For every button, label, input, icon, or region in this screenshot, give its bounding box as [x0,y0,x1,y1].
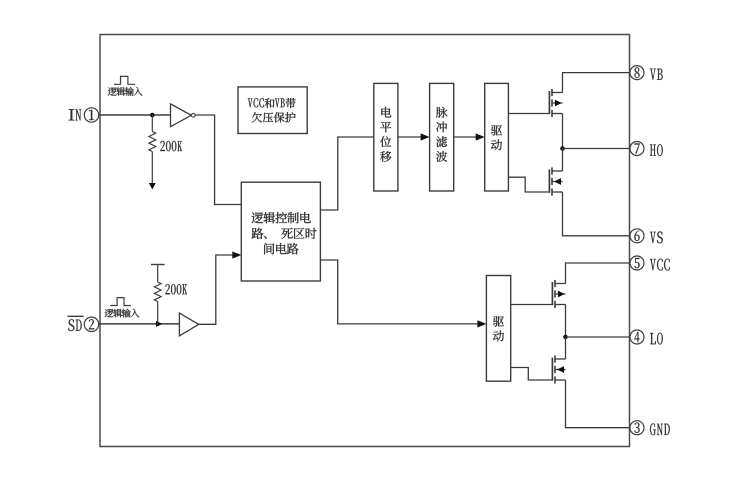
node: SD / R2 junction (arrow) [156,321,163,327]
inverter U1 (IN buffer with bubble) [171,104,196,127]
label VCC [650,259,670,271]
wire: driver1 to Q1 gate [508,113,549,115]
IC outline (device boundary) [100,35,630,447]
wire: Q1 source to HO node [562,114,564,149]
wire: buffer output to logic control box (with arrow) [199,251,242,324]
wire+arrow: level shift to pulse filter [398,133,430,140]
label GND [650,423,670,435]
pin 6 circle (VS) [630,229,644,243]
wire: HO node to pin 7 [563,148,631,150]
pin 8 circle (VB) [630,66,644,80]
wire: pin1 to inverter input [99,114,171,116]
node: IN / R1 junction [150,113,155,118]
pin 7 circle (HO) [630,142,644,156]
logic input pulse symbol (SD) [110,298,131,306]
transistor Q3 (low-side PMOS) [552,280,565,308]
label VS [650,232,663,244]
pin 5 circle (VCC) [630,256,644,270]
wire: driver1 to Q2 gate [508,177,549,192]
transistor Q2 (high-side NMOS) [549,167,562,195]
transistor Q4 (low-side NMOS) [552,355,565,383]
wire: logic box to level shifter [320,137,373,210]
transistor Q1 (high-side PMOS) [549,89,562,117]
ground arrow (R1 to ground) [149,183,156,190]
resistor R2 200K (SD pull-up) [151,265,165,324]
wire+arrow: pulse filter to driver 1 [454,133,485,140]
wire: LO node to pin 4 [566,336,631,338]
wire: Q2 drain to HO node [562,149,564,172]
label 逻辑输入 (IN) [108,87,143,96]
label 200K (R1) [160,141,182,151]
wire: driver2 to Q3 gate [511,304,553,306]
wire: Q3 source to LO node [565,305,567,338]
label 200K (R2) [165,284,187,294]
wire: Q4 source to GND and pin 3 [566,380,631,428]
pin 3 circle (GND) [630,421,644,435]
block: VCC/VB undervoltage protection [238,87,307,134]
label VB [650,69,663,80]
wire: Q2 source to VS and pin 6 [563,192,631,236]
label SD with overline [68,316,84,331]
label LO [650,333,663,345]
wire: pin2 to buffer input [99,323,180,325]
resistor R1 200K (IN pull-down) [149,115,156,183]
pin 2 circle (SD) [84,317,98,331]
label HO [650,144,663,156]
pin 1 circle (IN) [84,108,98,122]
node: HO [560,146,565,151]
pin 4 circle (LO) [630,330,644,344]
wire: driver2 to Q4 gate [511,368,553,381]
wire: inverter output to logic control box [195,115,241,205]
block: driver 1 (驱动, high side) [485,83,509,191]
wire: logic box to driver 2 (with arrow) [320,260,486,328]
block: level shift (电平位移) [374,83,398,191]
label IN [69,109,81,120]
buffer U2 (SD input) [179,313,198,336]
label 逻辑输入 (SD) [105,309,140,318]
wire: Q4 drain to LO node [565,337,567,359]
block: driver 2 (驱动, low side) [486,276,510,382]
logic input pulse symbol (IN) [114,76,135,84]
block: logic control / dead-time circuit [241,182,320,281]
node: LO [563,335,568,340]
wire: Q3 drain to VCC rail and pin 5 [566,263,631,284]
block: pulse filter (脉冲滤波) [430,83,454,191]
wire: Q1 drain to VB rail and pin 8 [563,73,631,93]
